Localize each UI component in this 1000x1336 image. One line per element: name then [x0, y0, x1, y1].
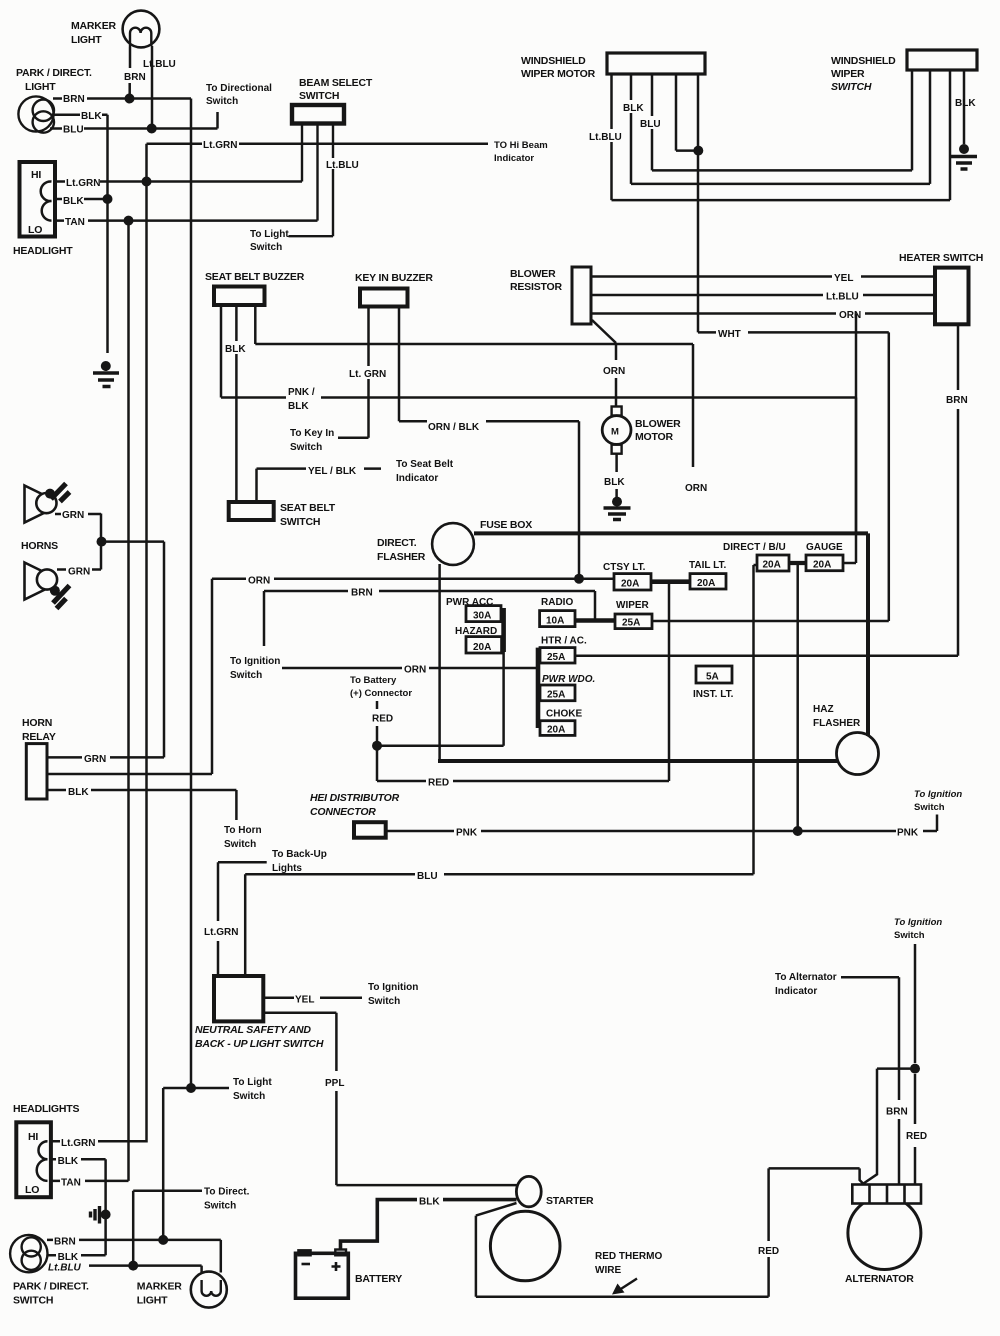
svg-text:Lt.GRN: Lt.GRN — [66, 178, 100, 189]
svg-text:HEADLIGHTS: HEADLIGHTS — [13, 1103, 79, 1115]
svg-text:HORN: HORN — [22, 717, 52, 729]
svg-text:Indicator: Indicator — [775, 986, 817, 997]
wire long vertical BRN down — [190, 99, 193, 1089]
fuse PWR ACC 30A — [466, 606, 501, 622]
label Lt.BLU (wiper motor) — [588, 129, 625, 143]
svg-text:To Back-Up: To Back-Up — [272, 849, 327, 860]
wire center vertical from wiper motor to WHT — [697, 151, 700, 333]
svg-text:TAN: TAN — [65, 217, 85, 228]
svg-text:TAN: TAN — [61, 1178, 81, 1189]
svg-text:To Horn: To Horn — [224, 825, 262, 836]
node TAN junction — [124, 216, 134, 226]
svg-text:BRN: BRN — [946, 395, 968, 406]
node battery feed junction — [372, 741, 382, 751]
svg-text:To Directional: To Directional — [206, 83, 272, 94]
wire BLK horn relay — [47, 790, 236, 820]
wire marker BRN leg — [128, 47, 131, 94]
wire YEL resistor to heater switch — [591, 275, 935, 278]
wire WHT wiper motor to wiper fuse — [698, 332, 889, 621]
node Lt.BLU junction (to direct switch) — [128, 1261, 138, 1271]
seat belt buzzer box — [214, 287, 265, 306]
svg-text:20A: 20A — [813, 560, 831, 571]
svg-text:To Light: To Light — [233, 1077, 272, 1088]
wire motor-switch link Lt.BLU — [612, 70, 951, 200]
svg-text:ORN: ORN — [404, 665, 426, 676]
wire BLU park light — [50, 112, 218, 129]
windshield wiper motor box — [607, 53, 705, 74]
wire RED battery feed to fuse — [377, 780, 669, 783]
svg-text:HAZ: HAZ — [813, 704, 834, 715]
fuse GAUGE 20A — [806, 555, 843, 571]
label PARK / DIRECT. LIGHT (top) — [16, 67, 92, 93]
label To Light Switch (beam select) — [250, 229, 289, 253]
fuse TAIL LT 20A — [690, 574, 726, 589]
wire alternator field link — [862, 1069, 915, 1185]
fuse HTR/AC 25A — [540, 648, 575, 663]
fuse RADIO 10A — [540, 611, 575, 627]
svg-text:YEL: YEL — [834, 273, 853, 284]
svg-text:PNK: PNK — [897, 828, 919, 839]
wire wiper motor pin2 (BLK) — [630, 74, 633, 184]
wire Lt.GRN headlight — [55, 180, 302, 183]
svg-text:BRN: BRN — [124, 72, 146, 83]
svg-text:To Key In: To Key In — [290, 428, 334, 439]
svg-text:SWITCH: SWITCH — [13, 1295, 53, 1307]
marker light (bottom) — [191, 1272, 227, 1308]
svg-text:PNK: PNK — [456, 828, 478, 839]
svg-text:ORN: ORN — [839, 310, 861, 321]
wire long vertical TAN down — [127, 221, 130, 1181]
svg-text:Switch: Switch — [224, 839, 256, 850]
node BLK junction — [103, 194, 113, 204]
wire PWR ACC/HAZARD bus bar — [501, 608, 506, 652]
haz flasher HF1 — [837, 733, 879, 775]
svg-text:NEUTRAL SAFETY AND: NEUTRAL SAFETY AND — [195, 1024, 311, 1036]
windshield wiper switch box — [907, 50, 977, 70]
svg-text:M: M — [611, 427, 619, 438]
svg-text:RESISTOR: RESISTOR — [510, 281, 563, 293]
label To Alternator Indicator — [775, 972, 837, 997]
svg-text:To Alternator: To Alternator — [775, 972, 837, 983]
svg-text:Switch: Switch — [894, 930, 925, 941]
svg-text:20A: 20A — [621, 579, 639, 590]
svg-text:BLK: BLK — [68, 787, 89, 798]
svg-text:BLK: BLK — [225, 344, 246, 355]
label To Horn Switch — [224, 825, 262, 850]
label To Key In Switch — [290, 428, 334, 453]
svg-text:Switch: Switch — [233, 1091, 265, 1102]
wire fuse link down to PNK — [796, 563, 799, 828]
svg-text:To Ignition: To Ignition — [894, 917, 942, 928]
label To Directional Switch — [206, 83, 272, 107]
svg-text:BACK - UP LIGHT SWITCH: BACK - UP LIGHT SWITCH — [195, 1038, 324, 1050]
svg-text:HEI DISTRIBUTOR: HEI DISTRIBUTOR — [310, 792, 400, 804]
svg-text:PARK / DIRECT.: PARK / DIRECT. — [16, 67, 92, 79]
svg-text:BRN: BRN — [63, 94, 85, 105]
label To Battery (+) Connector — [350, 675, 412, 699]
svg-text:HEATER SWITCH: HEATER SWITCH — [899, 252, 983, 264]
wire BLK headlight — [55, 198, 108, 201]
svg-text:Lt.BLU: Lt.BLU — [826, 292, 859, 303]
label HEI DISTRIBUTOR CONNECTOR — [310, 792, 400, 818]
svg-text:GAUGE: GAUGE — [806, 542, 843, 553]
fuse DIRECT/B/U 20A — [757, 555, 789, 571]
svg-text:SWITCH: SWITCH — [831, 81, 872, 93]
wire wiper switch BLK pin — [963, 70, 966, 144]
svg-text:Lt. GRN: Lt. GRN — [349, 369, 386, 380]
label BLOWER RESISTOR — [510, 268, 563, 293]
svg-text:HTR / AC.: HTR / AC. — [541, 636, 587, 647]
svg-text:RED: RED — [758, 1246, 779, 1257]
wire wiper motor pin5 — [697, 74, 700, 151]
node PNK junction — [793, 826, 803, 836]
neutral safety / back-up light switch box — [214, 976, 263, 1021]
wire horns junction to relay riser — [102, 540, 165, 543]
svg-text:CTSY LT.: CTSY LT. — [603, 562, 646, 573]
label DIRECT. FLASHER — [377, 537, 426, 563]
wire PPL neutral safety to starter — [263, 1013, 516, 1185]
svg-text:BLK: BLK — [81, 111, 102, 122]
svg-text:BLOWER: BLOWER — [510, 268, 556, 280]
svg-text:MARKER: MARKER — [137, 1281, 182, 1293]
svg-text:ORN / BLK: ORN / BLK — [428, 422, 480, 433]
label To Ignition Switch (fuse area) — [230, 656, 280, 681]
wire YEL neutral safety — [263, 996, 362, 999]
fuse CHOKE 20A — [540, 721, 575, 736]
svg-text:RED: RED — [906, 1131, 927, 1142]
wire fuse box top rail — [474, 533, 868, 736]
svg-text:20A: 20A — [547, 725, 565, 736]
svg-text:To Direct.: To Direct. — [204, 1187, 250, 1198]
label BLOWER MOTOR — [635, 418, 681, 443]
horn 2 (lower) — [25, 563, 70, 609]
wire WIPER fuse to WHT — [652, 620, 889, 623]
wire ORN ignition feed to HTR bus — [282, 667, 538, 670]
svg-text:To Light: To Light — [250, 229, 289, 240]
svg-text:WIRE: WIRE — [595, 1265, 621, 1276]
label To Back-Up Lights — [272, 849, 327, 874]
label To Ignition Switch (neutral safety) — [368, 982, 418, 1007]
svg-text:ORN: ORN — [685, 483, 707, 494]
wire PNK HEI to ignition — [386, 815, 937, 832]
wire beam select right (Lt.BLU pin) — [289, 124, 334, 236]
wire horn 1 GRN — [55, 513, 101, 516]
key in buzzer box — [360, 289, 408, 307]
svg-text:HORNS: HORNS — [21, 540, 58, 552]
ground (blower motor) — [604, 497, 631, 520]
wire key-in buzzer Lt.GRN pin — [338, 307, 369, 438]
label RED THERMO WIRE — [595, 1251, 662, 1276]
fuse PWR WDO 25A — [540, 685, 575, 701]
svg-text:BLK: BLK — [955, 98, 976, 109]
wire fuse box bottom rail — [438, 759, 838, 763]
wire wiper motor pin3 (BLU) — [651, 74, 654, 170]
wire long vertical Lt.GRN down — [145, 144, 148, 1143]
label BLK (wiper motor) — [621, 100, 645, 114]
svg-text:LIGHT: LIGHT — [71, 34, 102, 46]
svg-text:To Ignition: To Ignition — [914, 789, 962, 800]
svg-text:WHT: WHT — [718, 329, 741, 340]
svg-text:BLK: BLK — [604, 477, 625, 488]
wire GRN horn relay — [47, 542, 164, 758]
svg-text:DIRECT.: DIRECT. — [377, 537, 417, 549]
wire to light switch — [163, 1088, 229, 1240]
beam select switch box — [292, 105, 344, 124]
starter motor — [490, 1211, 560, 1281]
svg-text:30A: 30A — [473, 611, 491, 622]
wire TAN headlight to beam select — [55, 219, 318, 222]
wire ORN horn relay to fuse box — [47, 579, 212, 774]
svg-text:WINDSHIELD: WINDSHIELD — [521, 55, 586, 67]
wire BRN heater switch to HTR/AC fuse — [575, 324, 958, 655]
svg-text:HI: HI — [28, 1131, 38, 1143]
svg-text:BLU: BLU — [63, 125, 84, 136]
svg-text:BLK: BLK — [58, 1156, 79, 1167]
wire BLK park switch — [47, 1254, 106, 1257]
svg-text:MOTOR: MOTOR — [635, 431, 674, 443]
wire RADIO-WIPER thick link — [575, 618, 615, 623]
label WINDSHIELD WIPER MOTOR — [521, 55, 596, 80]
ground (wiper switch) — [951, 144, 977, 169]
wire marker Lt.BLU leg — [151, 46, 154, 126]
wire beam select left (Lt.GRN pin) — [301, 124, 303, 182]
wire HAZARD bus to battery node — [502, 652, 505, 746]
label To Ignition Switch (PNK) — [914, 789, 962, 813]
svg-text:Indicator: Indicator — [396, 473, 438, 484]
wire Lt.BLU resistor to heater switch — [591, 294, 935, 297]
wire BRN park light — [53, 97, 191, 100]
svg-text:FUSE BOX: FUSE BOX — [480, 519, 532, 531]
wire key-in buzzer ORN/BLK pin — [399, 307, 579, 579]
svg-text:BLK: BLK — [288, 401, 309, 412]
svg-text:Switch: Switch — [204, 1201, 236, 1212]
svg-text:BEAM SELECT: BEAM SELECT — [299, 77, 373, 89]
wire BLK blower motor to ground — [615, 454, 618, 497]
label To Light Switch (bottom) — [233, 1077, 272, 1102]
svg-text:GRN: GRN — [84, 754, 106, 765]
svg-text:MARKER: MARKER — [71, 20, 116, 32]
svg-text:ORN: ORN — [248, 576, 270, 587]
svg-text:BLK: BLK — [623, 103, 644, 114]
wire ORN resistor to heater switch — [591, 312, 935, 315]
label NEUTRAL SAFETY AND BACK-UP LIGHT SWITCH — [195, 1024, 324, 1050]
svg-text:HI: HI — [31, 169, 41, 181]
label WINDSHIELD WIPER SWITCH — [831, 55, 896, 93]
ground (bottom, chassis) — [91, 1206, 111, 1224]
label HORN RELAY — [22, 717, 56, 743]
wire BLK battery to starter — [341, 1200, 517, 1250]
svg-text:20A: 20A — [763, 560, 781, 571]
blower motor M1 — [602, 407, 631, 454]
svg-text:Switch: Switch — [250, 242, 282, 253]
svg-text:BRN: BRN — [351, 588, 373, 599]
fuse WIPER 25A — [615, 614, 652, 629]
svg-text:TAIL LT.: TAIL LT. — [689, 560, 726, 571]
svg-text:BLK: BLK — [63, 196, 84, 207]
svg-text:25A: 25A — [547, 690, 565, 701]
fuse HAZARD 20A — [466, 637, 502, 653]
horn 1 (upper) — [25, 484, 70, 523]
wire to back-up lights — [218, 862, 267, 976]
svg-text:LIGHT: LIGHT — [25, 81, 56, 93]
svg-text:PNK /: PNK / — [288, 387, 315, 398]
svg-text:10A: 10A — [546, 616, 564, 627]
label To Seat Belt Indicator — [396, 459, 454, 484]
svg-text:Lt.BLU: Lt.BLU — [326, 160, 359, 171]
svg-text:Switch: Switch — [368, 996, 400, 1007]
svg-text:SEAT BELT: SEAT BELT — [280, 502, 336, 514]
svg-text:LO: LO — [28, 224, 42, 236]
node wiper motor junction — [693, 146, 703, 156]
svg-text:SWITCH: SWITCH — [299, 90, 339, 102]
headlight box (top) — [20, 162, 56, 237]
wire seat-belt feed stub down (ORN) — [692, 344, 695, 467]
svg-text:BLK: BLK — [419, 1197, 440, 1208]
svg-text:5A: 5A — [706, 672, 719, 683]
wire to alternator indicator (BRN) — [841, 977, 899, 1184]
node alternator junction — [910, 1064, 920, 1074]
node BRN junction — [125, 94, 135, 104]
battery — [296, 1250, 349, 1299]
wire RED vertical (fuse to battery feed) — [668, 582, 671, 781]
wire DIRECT/B/U left leg to BLU — [754, 565, 758, 874]
svg-text:To Ignition: To Ignition — [368, 982, 418, 993]
svg-text:Indicator: Indicator — [494, 153, 534, 164]
label To Direct. Switch — [204, 1187, 250, 1212]
wire wiper motor pin4 — [676, 74, 699, 151]
label MARKER LIGHT (bottom) — [137, 1281, 182, 1307]
svg-text:Lt.BLU: Lt.BLU — [48, 1263, 82, 1274]
wire YEL/BLK from seat belt switch — [257, 469, 382, 502]
svg-text:SWITCH: SWITCH — [280, 516, 320, 528]
heater switch box — [935, 268, 969, 325]
svg-text:RELAY: RELAY — [22, 731, 56, 743]
label BEAM SELECT SWITCH — [299, 77, 373, 102]
svg-text:INST. LT.: INST. LT. — [693, 689, 734, 700]
wire BLK bottom to park switch — [51, 1159, 106, 1255]
label Lt. GRN (key in) — [348, 366, 390, 380]
horn relay box — [26, 744, 47, 799]
svg-text:20A: 20A — [473, 642, 491, 653]
wire BLU back-up switch to fuse — [245, 874, 753, 976]
label HAZ FLASHER — [813, 704, 861, 729]
wire seat belt buzzer pin3 — [255, 305, 693, 344]
wire battery node to HAZARD bus — [377, 744, 504, 747]
arrow (red thermo wire) — [612, 1279, 637, 1295]
wire RED alternator to thermo line — [769, 1168, 864, 1296]
wire ORN vertical to GAUGE fuse — [843, 314, 856, 564]
svg-text:BLU: BLU — [417, 871, 438, 882]
svg-text:WIPER: WIPER — [616, 600, 650, 611]
svg-text:WIPER MOTOR: WIPER MOTOR — [521, 68, 596, 80]
wire battery feed riser — [376, 701, 379, 781]
svg-text:FLASHER: FLASHER — [377, 551, 426, 563]
wire wiper motor pin1 (Lt.BLU) — [610, 74, 613, 200]
wire PNK/BLK from buzzer to fuse rail — [221, 398, 856, 534]
svg-text:LO: LO — [25, 1184, 39, 1196]
wire BRN fuse feed — [264, 591, 595, 646]
svg-text:PWR WDO.: PWR WDO. — [542, 674, 595, 685]
svg-text:Lt.GRN: Lt.GRN — [204, 927, 238, 938]
svg-text:BLU: BLU — [640, 119, 661, 130]
svg-text:Lt.GRN: Lt.GRN — [61, 1138, 95, 1149]
svg-text:PPL: PPL — [325, 1078, 344, 1089]
wire blower feed diagonal — [592, 320, 616, 407]
wire seat belt buzzer pin2 (BLK to switch) — [235, 305, 238, 502]
wire TAN bottom — [51, 1180, 129, 1183]
svg-text:PARK / DIRECT.: PARK / DIRECT. — [13, 1281, 89, 1293]
label BLU (wiper motor) — [638, 116, 662, 130]
marker light (top) — [123, 11, 160, 48]
wire seat belt buzzer pin1 (to PNK/BLK) — [220, 305, 223, 398]
svg-text:KEY IN BUZZER: KEY IN BUZZER — [355, 272, 433, 284]
svg-text:To Ignition: To Ignition — [230, 656, 280, 667]
svg-text:FLASHER: FLASHER — [813, 718, 861, 729]
svg-text:Switch: Switch — [914, 802, 945, 813]
wire Lt.GRN to hi beam indicator — [147, 143, 489, 146]
label SEAT BELT SWITCH — [280, 502, 336, 528]
label BLK (seat belt buzzer) — [223, 341, 250, 355]
svg-text:GRN: GRN — [68, 567, 90, 578]
label Lt.BLU (beam select) — [325, 158, 359, 171]
svg-text:To Battery: To Battery — [350, 675, 397, 686]
svg-text:TO Hi Beam: TO Hi Beam — [494, 140, 548, 151]
wire DIRECT-GAUGE thick link — [789, 561, 806, 565]
svg-text:SEAT BELT BUZZER: SEAT BELT BUZZER — [205, 271, 305, 283]
label TO Hi Beam Indicator — [494, 140, 548, 164]
blower resistor box — [572, 267, 591, 324]
svg-text:CHOKE: CHOKE — [546, 709, 582, 720]
wire CTSY-TAIL thick link — [651, 579, 690, 584]
wire motor-switch link BLU — [652, 70, 912, 170]
svg-text:STARTER: STARTER — [546, 1195, 594, 1207]
svg-text:YEL / BLK: YEL / BLK — [308, 466, 357, 477]
wire BLK park light — [52, 114, 108, 117]
svg-text:RADIO: RADIO — [541, 597, 573, 608]
svg-text:BATTERY: BATTERY — [355, 1273, 402, 1285]
wire ORN to fuse box (CTSY) — [212, 577, 614, 580]
svg-text:YEL: YEL — [295, 995, 314, 1006]
svg-text:ALTERNATOR: ALTERNATOR — [845, 1273, 914, 1285]
headlights box (bottom) — [16, 1122, 51, 1197]
label PARK / DIRECT. SWITCH — [13, 1281, 89, 1307]
svg-text:(+) Connector: (+) Connector — [350, 688, 412, 699]
svg-text:To Seat Belt: To Seat Belt — [396, 459, 454, 470]
ground (left, below headlight BLK) — [93, 361, 119, 387]
svg-text:RED THERMO: RED THERMO — [595, 1251, 662, 1262]
svg-text:RED: RED — [372, 714, 393, 725]
svg-text:Lt.BLU: Lt.BLU — [143, 59, 176, 70]
svg-text:CONNECTOR: CONNECTOR — [310, 806, 376, 818]
svg-text:Lt.GRN: Lt.GRN — [203, 140, 237, 151]
svg-text:20A: 20A — [697, 578, 715, 589]
svg-text:BRN: BRN — [54, 1237, 76, 1248]
direct flasher DF1 — [432, 523, 474, 565]
svg-text:25A: 25A — [547, 652, 565, 663]
park/direct light symbol (top) — [18, 96, 54, 132]
wire horn 2 GRN — [57, 514, 101, 570]
svg-text:RED: RED — [428, 778, 449, 789]
wire Lt.GRN bottom — [51, 1141, 147, 1142]
svg-text:LIGHT: LIGHT — [137, 1295, 168, 1307]
svg-text:Switch: Switch — [230, 670, 262, 681]
svg-text:WIPER: WIPER — [831, 68, 865, 80]
svg-text:Lt.BLU: Lt.BLU — [589, 132, 622, 143]
svg-text:BLK: BLK — [58, 1252, 79, 1263]
label PNK / BLK — [288, 387, 315, 412]
node BRN bottom junction — [158, 1235, 168, 1245]
svg-text:WINDSHIELD: WINDSHIELD — [831, 55, 896, 67]
